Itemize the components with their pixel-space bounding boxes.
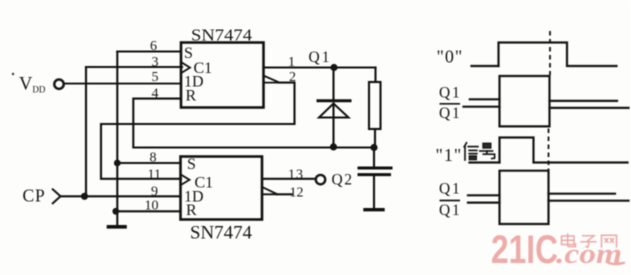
wire capacitor to ground bbox=[373, 175, 375, 208]
clock triangle pin11 U2 bbox=[182, 175, 190, 184]
wire resistor top lead bbox=[374, 68, 376, 83]
junction dot Q1 node bbox=[330, 64, 337, 71]
svg-text:"0": "0" bbox=[437, 47, 464, 67]
ground bbox=[109, 225, 126, 229]
wire 0-pulse bbox=[499, 43, 617, 67]
wire VDD to pin5 D1 bbox=[64, 83, 181, 85]
watermark com tail swash bbox=[607, 262, 625, 264]
speck bbox=[12, 73, 14, 75]
wire 1-low-left bbox=[470, 161, 500, 163]
overline Q1bar group4 bbox=[440, 200, 461, 202]
wire Q1bar rest right g4 bbox=[549, 200, 629, 202]
wire pin12 Q2-bar stub bbox=[277, 193, 292, 195]
watermark dianziwang (Chinese: zi) outlined bbox=[580, 236, 596, 248]
svg-text:1: 1 bbox=[288, 55, 295, 70]
svg-text:S: S bbox=[184, 45, 193, 62]
wire CP branch vertical bbox=[85, 67, 87, 196]
svg-text:Q1: Q1 bbox=[439, 202, 462, 219]
svg-text:4: 4 bbox=[152, 87, 159, 102]
dashed timing line upper bbox=[549, 31, 551, 75]
wire diode top lead bbox=[332, 68, 334, 101]
capacitor C1 bottom plate bbox=[359, 173, 390, 176]
diode D1 triangle bbox=[319, 104, 349, 118]
wire pin6 S1 bbox=[117, 50, 181, 52]
svg-text:Q1: Q1 bbox=[309, 49, 332, 66]
svg-text:6: 6 bbox=[150, 39, 157, 54]
wire Q1 rest left bbox=[470, 98, 500, 100]
wire capacitor top lead bbox=[373, 148, 375, 167]
svg-text:Q1: Q1 bbox=[439, 85, 462, 102]
wire pin1 Q1 output bbox=[264, 66, 376, 68]
svg-text:3: 3 bbox=[152, 55, 159, 70]
wire Q1bar rest left bbox=[464, 106, 500, 108]
wire ground bus vertical bbox=[116, 52, 118, 226]
node Q2 terminal circle bbox=[316, 175, 325, 184]
svg-text:S: S bbox=[187, 156, 196, 173]
overline Q1bar group2 bbox=[440, 103, 461, 105]
watermark dianziwang (Chinese: dian) outlined bbox=[562, 233, 576, 246]
node CP input chevron bbox=[52, 189, 61, 204]
svg-text:Q1: Q1 bbox=[439, 181, 462, 198]
wire Q1bar rest left g4 bbox=[468, 202, 500, 204]
wire Q1/Q1bar pulse box bbox=[500, 76, 550, 126]
svg-text:5: 5 bbox=[152, 70, 159, 85]
svg-text:10: 10 bbox=[145, 199, 159, 214]
waveform group 3: "1" signal bbox=[470, 138, 628, 163]
clock triangle pin3 U1 bbox=[182, 63, 190, 73]
svg-text:11: 11 bbox=[148, 168, 161, 183]
watermark dianziwang (Chinese: wang) outlined bbox=[602, 235, 617, 247]
wire resistor bottom lead bbox=[374, 129, 376, 148]
wire pin10 R2 bbox=[116, 210, 181, 212]
label xinhao (Chinese: hao) bbox=[480, 143, 495, 158]
inverter triangle Q1-bar output U1 bbox=[264, 76, 280, 83]
wire Q1/Q1bar pulse box g4 bbox=[500, 171, 549, 224]
junction dot pin10 on ground bus bbox=[112, 208, 119, 215]
svg-text:SN7474: SN7474 bbox=[191, 26, 253, 45]
wire 1-pulse bbox=[500, 138, 628, 163]
svg-text:R: R bbox=[186, 202, 197, 219]
svg-text:9: 9 bbox=[151, 185, 158, 200]
waveform group 2: Q1/Q1bar for 0 bbox=[464, 76, 629, 126]
junction dot resistor-capacitor node bbox=[370, 144, 377, 151]
inverter triangle Q2-bar output U2 bbox=[262, 187, 278, 194]
node VDD terminal circle bbox=[54, 80, 63, 89]
svg-text:21IC: 21IC bbox=[491, 228, 558, 272]
wire CP to pin9 D2 bbox=[60, 195, 181, 197]
resistor R1 bbox=[369, 82, 381, 129]
junction dot pin8 on ground bus bbox=[114, 160, 121, 167]
junction dot diode anode on RC rail bbox=[330, 143, 337, 150]
junction dot CP branch bbox=[81, 193, 88, 200]
diode D1 cathode bar bbox=[318, 99, 350, 102]
svg-text:12: 12 bbox=[290, 186, 304, 201]
wire Q1 rest right bbox=[550, 100, 618, 102]
svg-text:Q2: Q2 bbox=[332, 172, 354, 189]
svg-text:"1": "1" bbox=[436, 145, 463, 165]
wire Q1 rest left g4 bbox=[468, 194, 500, 196]
wire pin8 S2 bbox=[117, 162, 180, 164]
svg-text:SN7474: SN7474 bbox=[190, 223, 252, 244]
dashed timing line middle bbox=[548, 129, 550, 171]
capacitor C1 top plate bbox=[359, 167, 391, 170]
svg-text:R: R bbox=[186, 88, 197, 105]
svg-text:8: 8 bbox=[150, 151, 157, 166]
wire diode bottom lead bbox=[332, 104, 334, 147]
wire 0-low-left bbox=[472, 65, 499, 67]
svg-text:CP: CP bbox=[23, 186, 46, 206]
svg-text:2: 2 bbox=[289, 70, 296, 85]
op-amp U1 (upper flip-flop SN7474 box) bbox=[181, 43, 264, 108]
op-amp U2 (lower flip-flop SN7474 box) bbox=[181, 157, 263, 220]
svg-text:13: 13 bbox=[288, 168, 304, 183]
wire Q1bar rest right bbox=[550, 107, 629, 109]
svg-text:Q1: Q1 bbox=[439, 105, 462, 122]
ground capacitor bbox=[365, 208, 383, 211]
wire Q1-bar feedback to pin11 C2 bbox=[101, 83, 295, 179]
wire pin4 R1 bbox=[133, 99, 374, 148]
wire pin3 C1 bbox=[86, 66, 182, 68]
waveform group 1: "0" input bbox=[472, 43, 617, 67]
wire Q1 rest right g4 bbox=[549, 193, 616, 195]
wire pin13 Q2 output bbox=[262, 178, 316, 180]
waveform group 4: Q1/Q1bar for 1 bbox=[468, 171, 629, 224]
label xinhao (Chinese: xin) bbox=[464, 143, 478, 160]
